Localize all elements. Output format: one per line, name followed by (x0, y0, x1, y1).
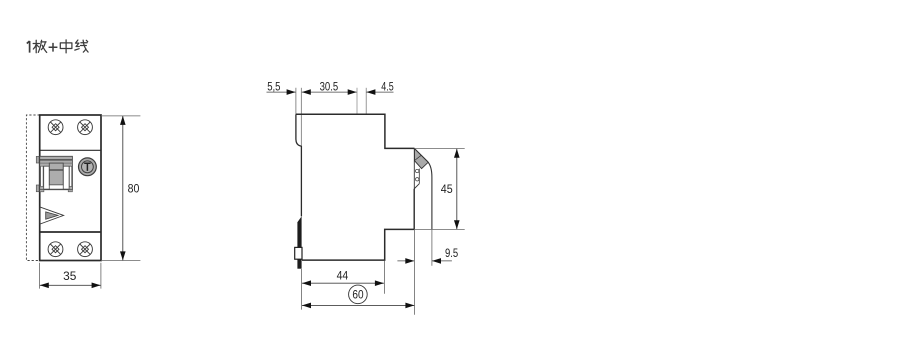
svg-text:30.5: 30.5 (320, 81, 339, 93)
svg-text:9.5: 9.5 (445, 248, 458, 260)
svg-text:5,5: 5,5 (267, 81, 280, 93)
svg-text:4.5: 4.5 (381, 81, 393, 93)
svg-text:45: 45 (441, 184, 453, 196)
svg-text:80: 80 (128, 183, 140, 195)
svg-text:60: 60 (352, 289, 363, 301)
svg-text:35: 35 (63, 271, 76, 283)
svg-text:44: 44 (337, 271, 349, 283)
